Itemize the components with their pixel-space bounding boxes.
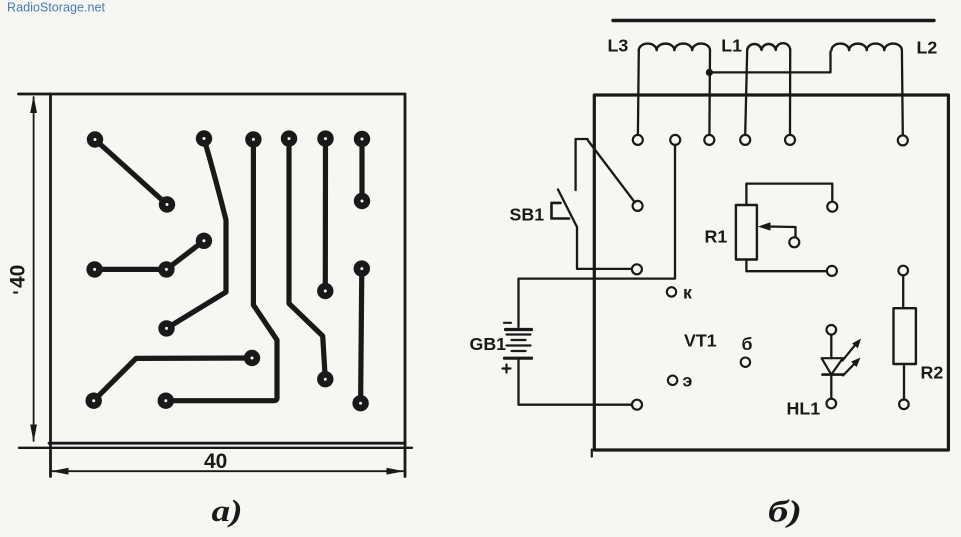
battery GB1 plus sign bbox=[503, 365, 511, 373]
top row pin 4 bbox=[740, 135, 750, 145]
top row pin 6 bbox=[898, 135, 908, 145]
wire battery to bottom pin bbox=[519, 358, 632, 405]
pad P2 bbox=[159, 196, 175, 212]
PCB pads bbox=[86, 130, 371, 411]
transistor VT1 collector pin bbox=[667, 287, 676, 296]
svg-text:VT1: VT1 bbox=[684, 331, 717, 351]
wire R2 bottom lead bbox=[903, 364, 905, 399]
trace P14-P13 bbox=[94, 358, 252, 401]
pad holes bbox=[92, 137, 363, 405]
horizontal dimension line 40 bbox=[52, 470, 403, 472]
svg-text:HL1: HL1 bbox=[787, 399, 821, 419]
trace P7 to P8 bbox=[359, 139, 364, 201]
PCB board outline left edge bbox=[49, 94, 52, 477]
svg-text:L3: L3 bbox=[608, 36, 629, 56]
R1 bottom pin bbox=[827, 266, 837, 276]
PCB board outline right edge bbox=[404, 94, 407, 477]
inductor L1 coil bbox=[747, 43, 790, 50]
switch SB1 bottom pin bbox=[632, 264, 642, 274]
trace P3 curve to P12 bbox=[167, 139, 227, 329]
wire L3 right lead bbox=[708, 50, 711, 135]
top row pin 2 bbox=[670, 135, 680, 145]
svg-text:R2: R2 bbox=[921, 363, 944, 383]
transistor VT1 emitter pin bbox=[668, 376, 677, 385]
PCB board outline top edge bbox=[19, 93, 405, 96]
transistor VT1 base pin bbox=[741, 358, 750, 367]
pad P9 bbox=[86, 261, 102, 277]
LED HL1 cathode bar bbox=[823, 373, 844, 376]
wire L1 right lead bbox=[789, 50, 792, 135]
battery GB1 plates bbox=[506, 328, 532, 331]
LED HL1 triangle bbox=[822, 358, 843, 374]
pad P7 bbox=[354, 131, 370, 147]
PCB bottom extension line bbox=[19, 447, 412, 449]
pad P17 bbox=[317, 371, 333, 387]
wire HL1 top bbox=[830, 335, 832, 358]
wire L3 left lead bbox=[637, 50, 640, 135]
inductor L2 coil bbox=[832, 44, 902, 51]
PCB traces bbox=[94, 139, 362, 404]
pad P19 bbox=[352, 395, 368, 411]
pad P12 bbox=[158, 320, 174, 336]
switch SB1 fixed terminal bbox=[576, 139, 588, 190]
trace P4 to P15 bbox=[166, 139, 277, 400]
vertical dimension line 40 bbox=[33, 97, 35, 441]
svg-text:э: э bbox=[683, 371, 693, 391]
small tick bbox=[14, 292, 17, 294]
wire L2 right lead bbox=[901, 50, 904, 135]
resistor R2 bottom pin bbox=[899, 400, 909, 410]
pad P16 bbox=[317, 283, 333, 299]
pad P1 bbox=[87, 131, 103, 147]
pad P5 bbox=[281, 130, 297, 146]
wire R1 wiper bbox=[768, 227, 796, 238]
svg-text:RadioStorage.net: RadioStorage.net bbox=[7, 0, 106, 14]
pad P10 bbox=[158, 261, 174, 277]
ferrite rod bar bbox=[613, 19, 934, 22]
svg-text:SB1: SB1 bbox=[510, 205, 545, 225]
potentiometer R1 body bbox=[736, 205, 757, 260]
trace P9-P10-P11 bbox=[95, 241, 204, 270]
R1 wiper arrow bbox=[758, 222, 771, 230]
switch SB1 arm pin bbox=[633, 201, 643, 211]
PCB board outline bottom edge bbox=[49, 442, 405, 445]
trace P18-P19 bbox=[361, 269, 362, 404]
pad P4 bbox=[245, 131, 261, 147]
pad P15 bbox=[158, 393, 174, 409]
battery GB1 minus sign bbox=[504, 322, 511, 324]
wire pin2 to battery bbox=[519, 145, 676, 327]
switch SB1 movable contact bbox=[558, 190, 577, 228]
pad P8 bbox=[354, 193, 370, 209]
switch SB1 arm bbox=[588, 141, 635, 203]
wire HL1 bottom bbox=[830, 375, 832, 399]
LED HL1 emission arrow 2 bbox=[843, 363, 855, 375]
wire L1 left lead bbox=[745, 50, 747, 135]
wire R1 bottom lead bbox=[746, 260, 826, 272]
wire R2 top lead bbox=[902, 275, 904, 308]
LED HL1 emission arrow 1 bbox=[843, 345, 856, 360]
svg-text:R1: R1 bbox=[705, 227, 728, 247]
LED HL1 bottom pin bbox=[827, 399, 837, 409]
wire SB1 to pin bbox=[577, 227, 632, 269]
pad P18 bbox=[354, 260, 370, 276]
svg-text:GB1: GB1 bbox=[470, 334, 507, 354]
top row pin 5 bbox=[785, 135, 795, 145]
R1 top pin bbox=[827, 202, 837, 212]
top row pin 3 bbox=[704, 135, 714, 145]
svg-text:40: 40 bbox=[204, 450, 227, 473]
svg-text:б): б) bbox=[768, 494, 802, 529]
switch SB1 button bracket bbox=[552, 203, 570, 219]
junction dot bbox=[706, 69, 713, 76]
svg-text:L1: L1 bbox=[721, 36, 742, 56]
wire junction to L2 bbox=[709, 52, 830, 73]
pad P11 bbox=[196, 233, 212, 249]
resistor R2 top pin bbox=[898, 266, 908, 276]
svg-text:40: 40 bbox=[7, 265, 30, 288]
box corner stub bbox=[591, 450, 593, 457]
svg-text:к: к bbox=[683, 283, 692, 303]
pad P13 bbox=[244, 350, 260, 366]
board box bbox=[594, 95, 948, 450]
pad P3 bbox=[196, 130, 212, 146]
wire R1 top lead bbox=[746, 184, 832, 205]
resistor R2 body bbox=[894, 308, 916, 364]
R1 wiper pin bbox=[789, 237, 799, 247]
pad P14 bbox=[86, 393, 102, 409]
svg-text:а): а) bbox=[212, 493, 243, 528]
svg-text:L2: L2 bbox=[917, 38, 938, 58]
trace P1-P2 bbox=[95, 140, 167, 205]
inductor L3 coil bbox=[639, 44, 710, 51]
pad P6 bbox=[317, 130, 333, 146]
trace P5 to P17 bbox=[289, 139, 325, 380]
LED HL1 top pin bbox=[827, 325, 837, 335]
bottom pin emitter wire bbox=[632, 400, 642, 410]
svg-text:б: б bbox=[742, 334, 753, 354]
top row pin 1 bbox=[633, 135, 643, 145]
trace P6 to P16 bbox=[323, 139, 328, 291]
